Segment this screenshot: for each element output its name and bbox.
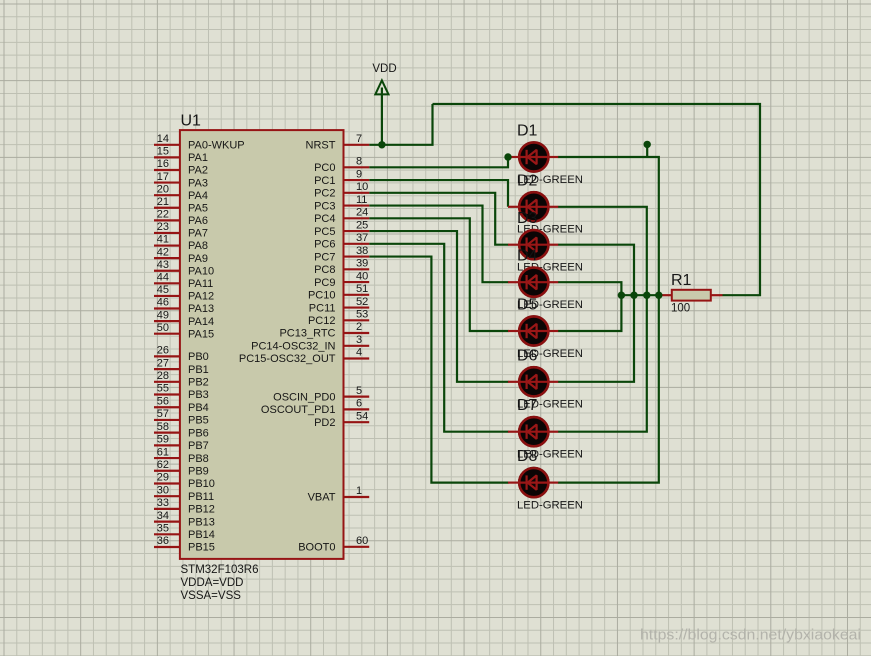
- power symbol VDD: [372, 63, 396, 95]
- pin 14 PA0-WKUP: [154, 144, 180, 146]
- wire stub with dot above D1 anode wire: [646, 144, 648, 158]
- svg-text:26: 26: [157, 345, 169, 357]
- svg-text:59: 59: [157, 434, 169, 446]
- svg-text:PB12: PB12: [188, 504, 215, 516]
- svg-text:PA1: PA1: [188, 152, 208, 164]
- svg-text:17: 17: [157, 171, 169, 183]
- svg-text:PA5: PA5: [188, 202, 208, 214]
- svg-text:D3: D3: [517, 210, 538, 227]
- svg-text:57: 57: [157, 408, 169, 420]
- svg-text:21: 21: [157, 196, 169, 208]
- svg-text:PA0-WKUP: PA0-WKUP: [188, 140, 245, 152]
- pin 43 PA10: [154, 270, 180, 272]
- svg-text:1: 1: [356, 485, 362, 497]
- svg-text:PA11: PA11: [188, 278, 213, 290]
- svg-text:36: 36: [157, 535, 169, 547]
- svg-text:R1: R1: [671, 272, 692, 289]
- svg-text:LED-GREEN: LED-GREEN: [517, 499, 583, 511]
- svg-text:PB8: PB8: [188, 453, 209, 465]
- pin 51 PC10: [344, 294, 370, 296]
- svg-text:7: 7: [356, 133, 362, 145]
- svg-text:56: 56: [157, 395, 169, 407]
- svg-text:44: 44: [157, 272, 169, 284]
- svg-text:VBAT: VBAT: [308, 492, 336, 504]
- svg-text:PA9: PA9: [188, 253, 208, 265]
- wire PC0 to D1: [369, 157, 508, 167]
- svg-text:D2: D2: [517, 172, 538, 189]
- svg-text:D8: D8: [517, 448, 538, 465]
- LED D7 LED-GREEN: [508, 397, 583, 460]
- LED D2 LED-GREEN: [508, 172, 583, 235]
- pin 2 PC13_RTC: [344, 332, 370, 334]
- wire D5 anode to junction row: [558, 295, 622, 331]
- svg-text:PA7: PA7: [188, 228, 208, 240]
- svg-text:100: 100: [671, 303, 690, 315]
- svg-text:11: 11: [356, 194, 367, 206]
- wire VDD drop to NRST net: [381, 88, 383, 145]
- wire PC2 to D3: [369, 193, 508, 245]
- svg-text:34: 34: [157, 510, 169, 522]
- svg-text:PB3: PB3: [188, 389, 209, 401]
- svg-text:39: 39: [356, 258, 368, 270]
- svg-text:PC13_RTC: PC13_RTC: [279, 328, 335, 340]
- pin 53 PC12: [344, 319, 370, 321]
- svg-text:55: 55: [157, 383, 169, 395]
- wire PC1 to D2: [369, 180, 508, 207]
- pin 11 PC3: [344, 204, 370, 206]
- wire D7 anode to junction row: [558, 295, 647, 432]
- svg-text:PB0: PB0: [188, 351, 209, 363]
- pin 49 PA14: [154, 320, 180, 322]
- LED D4 LED-GREEN: [508, 248, 583, 311]
- svg-text:PB1: PB1: [188, 364, 209, 376]
- svg-text:25: 25: [356, 219, 368, 231]
- svg-text:6: 6: [356, 398, 362, 410]
- junction row dot 3: [643, 292, 650, 299]
- svg-text:PA4: PA4: [188, 190, 208, 202]
- wire NRST net: pin7 to VDD junction and top bus riser: [369, 104, 432, 145]
- pin 44 PA11: [154, 282, 180, 284]
- svg-text:14: 14: [157, 133, 169, 145]
- svg-text:PA8: PA8: [188, 240, 208, 252]
- svg-text:PC14-OSC32_IN: PC14-OSC32_IN: [251, 341, 335, 353]
- svg-text:PC3: PC3: [314, 200, 335, 212]
- svg-text:PC7: PC7: [314, 251, 335, 263]
- svg-text:37: 37: [356, 232, 368, 244]
- pin 21 PA5: [154, 207, 180, 209]
- pin 23 PA7: [154, 232, 180, 234]
- svg-text:VDDA=VDD: VDDA=VDD: [181, 577, 244, 589]
- pin 42 PA9: [154, 257, 180, 259]
- microcontroller U1 STM32F103R6: [154, 113, 369, 603]
- svg-text:PC15-OSC32_OUT: PC15-OSC32_OUT: [239, 353, 336, 365]
- svg-text:https://blog.csdn.net/ybxiaoke: https://blog.csdn.net/ybxiaokeai: [640, 628, 861, 644]
- junction NRST-VDD: [378, 141, 385, 148]
- pin 9 PC1: [344, 179, 370, 181]
- svg-text:PB9: PB9: [188, 465, 209, 477]
- pin 33 PB12: [154, 508, 180, 510]
- svg-text:PA3: PA3: [188, 177, 208, 189]
- svg-text:40: 40: [356, 270, 368, 282]
- junction D1 cathode: [504, 153, 511, 160]
- pin 28 PB2: [154, 381, 180, 383]
- pin 29 PB10: [154, 482, 180, 484]
- svg-text:PA2: PA2: [188, 165, 208, 177]
- svg-text:5: 5: [356, 385, 362, 397]
- svg-text:41: 41: [157, 234, 169, 246]
- svg-text:45: 45: [157, 284, 169, 296]
- svg-text:PA6: PA6: [188, 215, 208, 227]
- svg-text:OSCIN_PD0: OSCIN_PD0: [273, 391, 335, 403]
- svg-text:50: 50: [157, 322, 169, 334]
- LED D8 LED-GREEN: [508, 448, 583, 511]
- pin 50 PA15: [154, 333, 180, 335]
- svg-text:3: 3: [356, 334, 362, 346]
- svg-text:PA14: PA14: [188, 316, 214, 328]
- svg-text:PC5: PC5: [314, 226, 335, 238]
- svg-text:PA10: PA10: [188, 265, 214, 277]
- pin 25 PC5: [344, 230, 370, 232]
- svg-text:28: 28: [157, 370, 169, 382]
- svg-text:PC9: PC9: [314, 277, 335, 289]
- svg-text:53: 53: [356, 309, 368, 321]
- wire PC3 to D4: [369, 206, 508, 283]
- svg-text:PB11: PB11: [188, 491, 214, 503]
- pin 58 PB6: [154, 432, 180, 434]
- svg-text:D4: D4: [517, 248, 538, 265]
- wire D6 anode to junction row: [558, 295, 634, 382]
- wire PC6 to D7: [369, 244, 508, 432]
- svg-text:51: 51: [356, 283, 368, 295]
- pin 45 PA12: [154, 295, 180, 297]
- svg-text:30: 30: [157, 484, 169, 496]
- pin 34 PB13: [154, 520, 180, 522]
- pin 15 PA1: [154, 156, 180, 158]
- svg-text:49: 49: [157, 309, 169, 321]
- svg-text:OSCOUT_PD1: OSCOUT_PD1: [261, 404, 336, 416]
- svg-text:43: 43: [157, 259, 169, 271]
- svg-text:NRST: NRST: [306, 140, 336, 152]
- LED D5 LED-GREEN: [508, 297, 583, 360]
- svg-text:24: 24: [356, 207, 368, 219]
- pin 27 PB1: [154, 368, 180, 370]
- pin 24 PC4: [344, 217, 370, 219]
- svg-text:PC1: PC1: [314, 175, 335, 187]
- svg-text:PC4: PC4: [314, 213, 335, 225]
- pin 8 PC0: [344, 166, 370, 168]
- pin 22 PA6: [154, 219, 180, 221]
- pin 35 PB14: [154, 533, 180, 535]
- svg-text:62: 62: [157, 459, 169, 471]
- junction dot above D1 wire: [644, 141, 651, 148]
- pin 17 PA3: [154, 181, 180, 183]
- svg-text:PA13: PA13: [188, 303, 214, 315]
- wire top bus from riser to R1 right terminal: [433, 104, 761, 295]
- wire D4 anode to junction row: [558, 282, 622, 295]
- LED D3 LED-GREEN: [508, 210, 583, 273]
- wire D8 anode to junction row: [558, 295, 659, 482]
- svg-text:PC8: PC8: [314, 264, 335, 276]
- svg-text:PB7: PB7: [188, 440, 209, 452]
- pin 6 OSCOUT_PD1: [344, 408, 370, 410]
- svg-text:PC11: PC11: [309, 302, 336, 314]
- svg-text:33: 33: [157, 497, 169, 509]
- svg-text:38: 38: [356, 245, 368, 257]
- pin 16 PA2: [154, 169, 180, 171]
- svg-text:10: 10: [356, 181, 368, 193]
- pin 1 VBAT: [344, 496, 370, 498]
- pin 7 NRST: [344, 144, 370, 146]
- svg-text:U1: U1: [181, 113, 202, 130]
- svg-text:PA15: PA15: [188, 328, 214, 340]
- pin 30 PB11: [154, 495, 180, 497]
- svg-text:PA12: PA12: [188, 291, 214, 303]
- svg-text:60: 60: [356, 535, 368, 547]
- svg-text:PB4: PB4: [188, 402, 209, 414]
- svg-text:D7: D7: [517, 397, 538, 414]
- svg-text:20: 20: [157, 183, 169, 195]
- pin 5 OSCIN_PD0: [344, 396, 370, 398]
- resistor R1 100: [662, 272, 723, 315]
- svg-text:PD2: PD2: [314, 417, 335, 429]
- junction row dot 4: [655, 292, 662, 299]
- wire D3 anode to junction row: [558, 245, 634, 296]
- pin 37 PC6: [344, 243, 370, 245]
- svg-text:8: 8: [356, 156, 362, 168]
- pin 55 PB3: [154, 393, 180, 395]
- pin 20 PA4: [154, 194, 180, 196]
- pin 60 BOOT0: [344, 546, 370, 548]
- pin 62 PB9: [154, 470, 180, 472]
- pin 4 PC15-OSC32_OUT: [344, 357, 370, 359]
- svg-text:PC0: PC0: [314, 162, 335, 174]
- svg-text:STM32F103R6: STM32F103R6: [181, 564, 259, 576]
- wire PC5 to D6: [369, 231, 508, 382]
- junction row dot 1: [618, 292, 625, 299]
- svg-text:PC2: PC2: [314, 188, 335, 200]
- pin 59 PB7: [154, 444, 180, 446]
- svg-text:BOOT0: BOOT0: [298, 542, 335, 554]
- wire D1 anode to junction row: [558, 157, 659, 295]
- pin 38 PC7: [344, 255, 370, 257]
- svg-text:23: 23: [157, 221, 169, 233]
- svg-text:VSSA=VSS: VSSA=VSS: [181, 590, 242, 602]
- pin 39 PC8: [344, 268, 370, 270]
- svg-text:2: 2: [356, 321, 362, 333]
- svg-text:58: 58: [157, 421, 169, 433]
- svg-text:35: 35: [157, 522, 169, 534]
- svg-text:4: 4: [356, 347, 362, 359]
- pin 46 PA13: [154, 307, 180, 309]
- pin 41 PA8: [154, 244, 180, 246]
- wire junction row to R1 left terminal: [621, 294, 662, 296]
- wire PC7 to D8: [369, 257, 508, 483]
- pin 3 PC14-OSC32_IN: [344, 345, 370, 347]
- svg-text:42: 42: [157, 246, 169, 258]
- svg-text:PC6: PC6: [314, 239, 335, 251]
- LED D1 LED-GREEN: [508, 123, 583, 186]
- pin 54 PD2: [344, 421, 370, 423]
- junction row dot 2: [630, 292, 637, 299]
- svg-text:27: 27: [157, 357, 169, 369]
- svg-text:PB5: PB5: [188, 415, 209, 427]
- pin 36 PB15: [154, 546, 180, 548]
- svg-text:52: 52: [356, 296, 368, 308]
- pin 40 PC9: [344, 281, 370, 283]
- pin 26 PB0: [154, 355, 180, 357]
- wire PC4 to D5: [369, 218, 508, 331]
- svg-text:PC12: PC12: [308, 315, 336, 327]
- pin 52 PC11: [344, 306, 370, 308]
- svg-text:D1: D1: [517, 123, 538, 140]
- svg-text:PB2: PB2: [188, 377, 209, 389]
- svg-text:PB13: PB13: [188, 516, 215, 528]
- pin 56 PB4: [154, 406, 180, 408]
- svg-text:VDD: VDD: [372, 63, 396, 75]
- pin 10 PC2: [344, 192, 370, 194]
- pin 57 PB5: [154, 419, 180, 421]
- pin 61 PB8: [154, 457, 180, 459]
- svg-text:46: 46: [157, 297, 169, 309]
- LED D6 LED-GREEN: [508, 347, 583, 410]
- svg-text:29: 29: [157, 472, 169, 484]
- svg-text:9: 9: [356, 168, 362, 180]
- svg-text:15: 15: [157, 146, 169, 158]
- svg-text:22: 22: [157, 209, 169, 221]
- svg-text:D6: D6: [517, 347, 538, 364]
- svg-text:D5: D5: [517, 297, 538, 314]
- svg-text:PB15: PB15: [188, 542, 215, 554]
- svg-text:PB10: PB10: [188, 478, 215, 490]
- svg-text:61: 61: [157, 446, 169, 458]
- svg-text:16: 16: [157, 158, 169, 170]
- svg-text:PB6: PB6: [188, 427, 209, 439]
- svg-text:PC10: PC10: [308, 290, 336, 302]
- svg-text:PB14: PB14: [188, 529, 215, 541]
- wire D2 anode to junction row: [558, 207, 647, 295]
- svg-text:54: 54: [356, 410, 368, 422]
